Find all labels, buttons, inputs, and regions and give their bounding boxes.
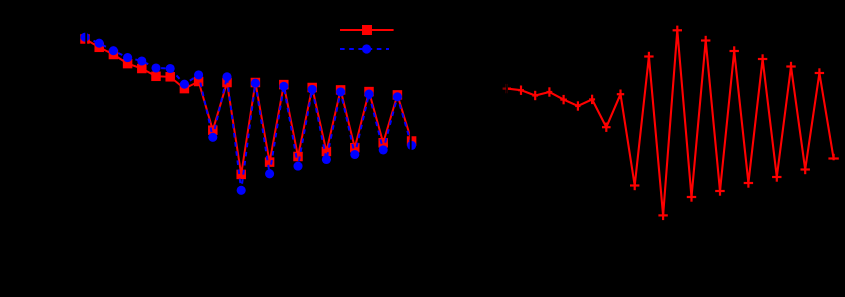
right plot: left axis spine dimming first marker	[501, 83, 509, 96]
legend entry 1: red square marker	[362, 25, 372, 35]
legend entry 2: blue circle marker	[362, 44, 371, 53]
left plot: blue dashed series line	[85, 37, 412, 190]
left plot: left axis spine overlapping first markers	[85, 18, 87, 215]
left plot: red square markers	[80, 34, 416, 179]
right plot: red plus markers (vertical and horizontal bars)	[503, 26, 839, 221]
left plot: red solid series line	[85, 39, 412, 174]
legend entry 2: blue dashed line sample	[340, 48, 389, 50]
right plot: red series line	[507, 30, 834, 215]
left plot: right axis spine overlapping last markers	[410, 18, 412, 215]
legend entry 1: red solid line sample	[340, 29, 394, 31]
left plot: blue circle markers	[80, 33, 416, 195]
